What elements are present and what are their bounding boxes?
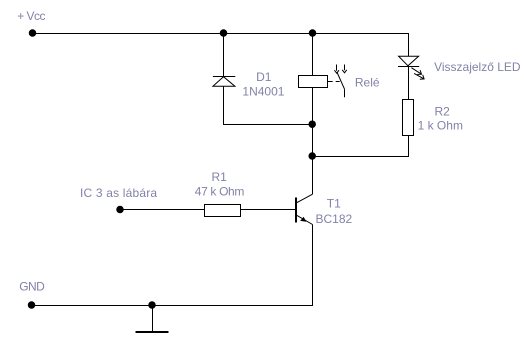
svg-text:D1: D1	[256, 70, 272, 84]
svg-text:R1: R1	[212, 170, 228, 184]
svg-text:1 k Ohm: 1 k Ohm	[418, 119, 463, 133]
svg-text:Relé: Relé	[355, 76, 380, 90]
svg-text:BC182: BC182	[316, 212, 353, 226]
svg-text:T1: T1	[327, 197, 341, 211]
svg-text:IC 3 as lábára: IC 3 as lábára	[80, 186, 157, 200]
svg-text:R2: R2	[435, 104, 451, 118]
svg-text:+ Vcc: + Vcc	[17, 9, 45, 23]
svg-text:1N4001: 1N4001	[242, 84, 284, 98]
svg-text:Visszajelző LED: Visszajelző LED	[434, 60, 521, 74]
svg-text:47 k Ohm: 47 k Ohm	[195, 185, 245, 199]
svg-text:GND: GND	[19, 280, 45, 294]
